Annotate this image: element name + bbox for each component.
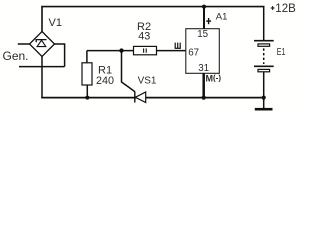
wire Gen bottom terminal (19, 66, 65, 68)
wire Gen top terminal (18, 43, 30, 45)
svg-text:V1: V1 (49, 17, 62, 29)
svg-text:A1: A1 (216, 11, 228, 22)
junction battery / ground bus (262, 96, 266, 100)
pin M(-) stub (202, 73, 205, 97)
svg-text:15: 15 (197, 29, 208, 40)
svg-text:M(-): M(-) (206, 73, 222, 83)
power marks in R2 (144, 48, 147, 52)
zener diode inside V1 (36, 40, 46, 47)
battery E1 cell 1 (254, 41, 274, 47)
svg-text:E1: E1 (277, 46, 286, 58)
thyristor VS1 (135, 91, 146, 102)
wire R2 to A1 pin 67 (157, 50, 187, 52)
wire from V1 bottom vertex to ground bus (41, 57, 43, 98)
wire from V1 right vertex to Gen bottom terminal (55, 44, 65, 67)
junction gate node (119, 48, 123, 52)
chassis ground bar (255, 108, 273, 111)
wire ground bus (41, 97, 264, 99)
label +12V plus sign (271, 6, 275, 10)
wire top bus +12V (41, 6, 264, 8)
label sh terminal (175, 43, 181, 49)
junction R1/ground bus (85, 96, 89, 100)
junction pin31 / ground bus (202, 96, 206, 100)
wire R1 top to R2 node (87, 50, 134, 52)
svg-text:67: 67 (188, 47, 199, 58)
svg-text:31: 31 (198, 63, 209, 74)
svg-text:240: 240 (96, 75, 114, 87)
pin 15 stub (203, 7, 205, 29)
svg-text:VS1: VS1 (138, 76, 157, 87)
wire between cells (dashed) (263, 48, 265, 64)
wire R1 bottom pin (86, 85, 88, 98)
wire VS1 gate (122, 51, 135, 92)
svg-text:43: 43 (138, 30, 150, 42)
battery E1 cell 2 (254, 66, 274, 72)
wire R1 top pin (86, 51, 88, 63)
wire right vertical from top bus to battery (263, 7, 265, 41)
svg-text:Gen.: Gen. (3, 49, 29, 63)
resistor R1 (82, 63, 92, 85)
resistor R2 (134, 46, 157, 54)
wire from top bus down to V1 top vertex (41, 7, 43, 32)
wire battery bottom to ground bus (263, 72, 265, 108)
svg-text:12В: 12В (275, 3, 296, 15)
junction pin15 / top bus (202, 5, 206, 9)
plus label at pin 15 (206, 18, 211, 24)
regulator box A1 (186, 29, 220, 74)
rectifier diamond V1 (30, 32, 55, 57)
